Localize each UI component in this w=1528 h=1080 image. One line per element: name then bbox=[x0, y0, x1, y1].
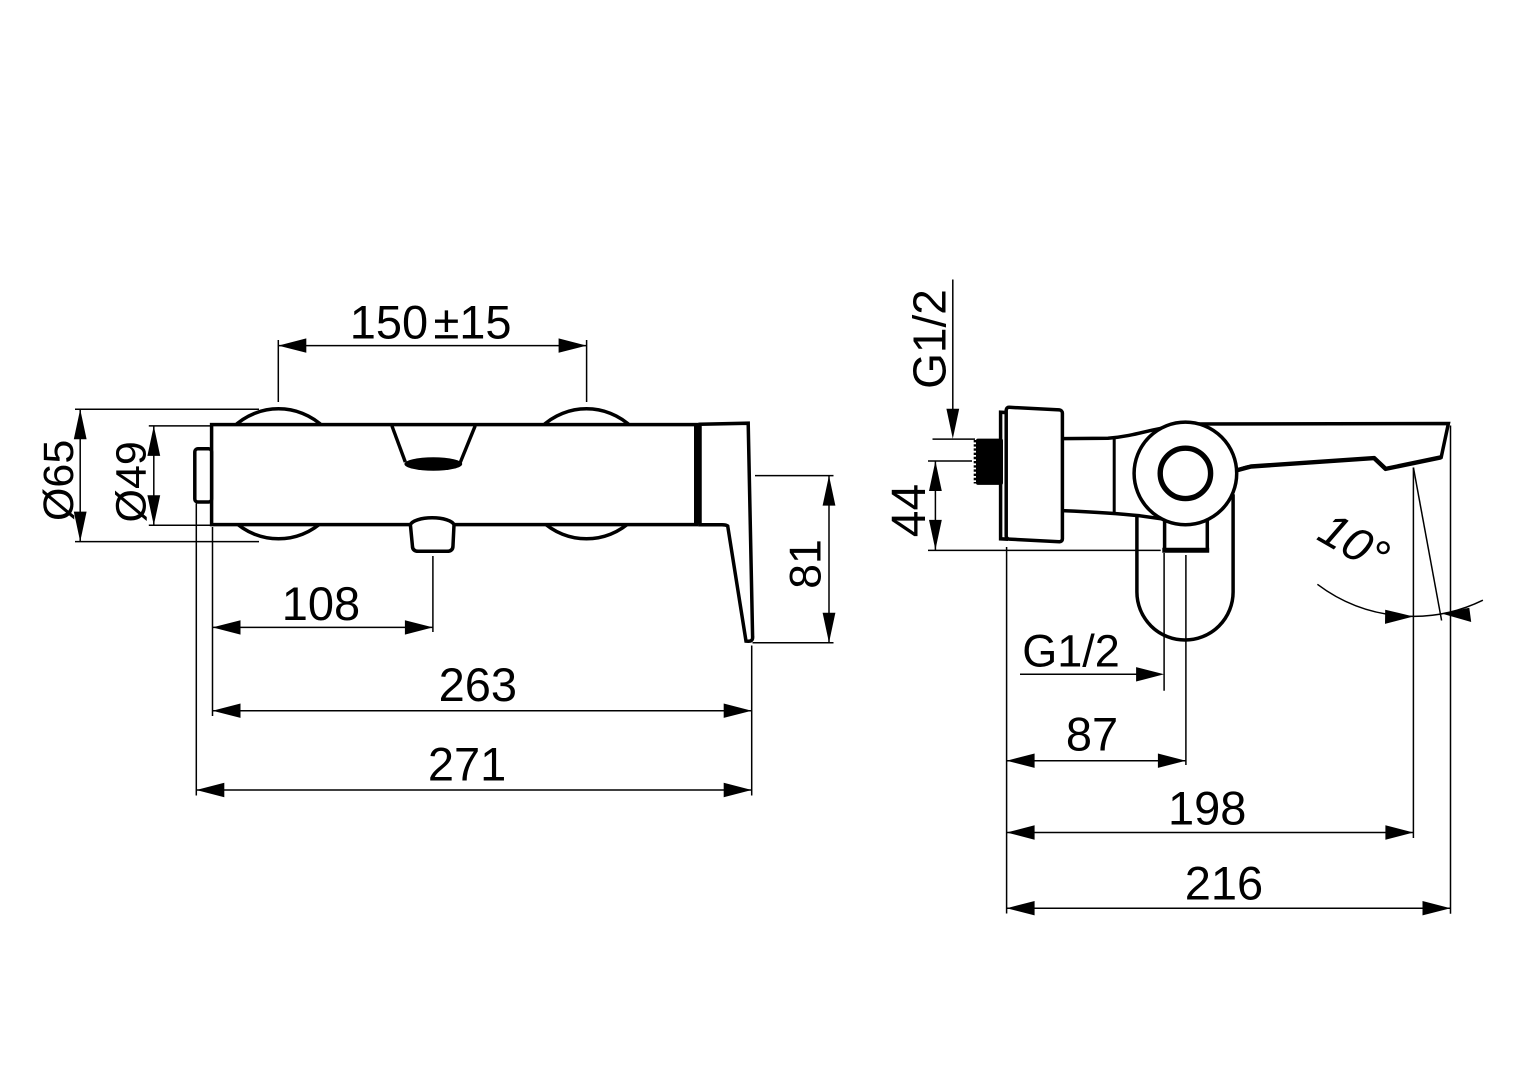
angle 10°: arc bbox=[1317, 584, 1483, 616]
dimension 87: right arrowhead bbox=[1158, 754, 1186, 768]
side view: valve cartridge inner circle bbox=[1160, 448, 1210, 498]
dimension Ø49: top arrowhead bbox=[147, 426, 160, 456]
dimension 150 ±15: dimension line bbox=[278, 345, 586, 347]
front view: diverter recess left edge bbox=[392, 426, 405, 462]
front view: diverter recess bowl (filled ellipse) bbox=[404, 457, 462, 471]
dimension 263: left extension line bbox=[212, 527, 214, 716]
side view: wall arm bbox=[1062, 427, 1170, 521]
front view: left wall-mount escutcheon circle bbox=[214, 409, 344, 539]
svg-text:44: 44 bbox=[883, 484, 936, 537]
dimension 198: right arrowhead bbox=[1385, 825, 1413, 839]
svg-text:G1/2: G1/2 bbox=[1022, 626, 1120, 677]
side view: escutcheon cap bbox=[1006, 407, 1062, 542]
side view: outlet port bottom thick edge bbox=[1162, 548, 1209, 553]
dimension 81: bottom extension line bbox=[753, 642, 834, 644]
dimension 216: dimension line bbox=[1007, 907, 1451, 909]
dimension 263: left arrowhead bbox=[213, 704, 241, 718]
dimension Ø49: dimension line bbox=[153, 426, 155, 525]
svg-text:G1/2: G1/2 bbox=[904, 289, 956, 389]
outlet port left-edge extension line bbox=[1163, 553, 1165, 691]
dimension 271: left arrowhead bbox=[196, 783, 224, 797]
svg-text:±15: ±15 bbox=[433, 296, 511, 349]
side view: valve body outer circle bbox=[1134, 422, 1237, 525]
svg-text:87: 87 bbox=[1066, 708, 1118, 761]
dimension Ø65: dimension line bbox=[79, 409, 81, 541]
svg-text:198: 198 bbox=[1168, 782, 1246, 835]
dimension 81: top extension line bbox=[755, 475, 834, 477]
front view: left end cap bbox=[195, 449, 212, 502]
dimension 198: left arrowhead bbox=[1007, 825, 1035, 839]
side view: escutcheon flange plate bbox=[1001, 412, 1007, 539]
side view: lever handle bbox=[1183, 424, 1448, 491]
side view: nipple thread serration bbox=[974, 440, 977, 484]
front view: bottom outlet nub bbox=[410, 518, 454, 552]
side view: handle bottom edge thick overdraw bbox=[1236, 457, 1441, 470]
dimension 81: bottom arrowhead bbox=[823, 613, 836, 643]
dimension 150 ±15: left arrowhead bbox=[278, 338, 306, 352]
dimension 44: bottom extension line bbox=[928, 549, 1161, 551]
svg-text:108: 108 bbox=[282, 577, 360, 630]
side view: spout U-outlet bbox=[1137, 496, 1233, 640]
svg-text:Ø65: Ø65 bbox=[35, 440, 83, 521]
dimension Ø65: bottom extension line bbox=[75, 541, 259, 543]
side view: arm joint line bbox=[1113, 438, 1116, 512]
dimension 108: right arrowhead bbox=[405, 620, 433, 634]
side view: threaded wall nipple G1/2 bbox=[976, 439, 1003, 485]
dimension Ø65: top extension line bbox=[75, 408, 259, 410]
dimension 263/271: shared right extension line bbox=[751, 646, 753, 796]
wall plane extension line bbox=[1006, 547, 1008, 914]
dimension Ø65: bottom arrowhead bbox=[74, 512, 87, 542]
dimension 150 ±15: right extension line bbox=[586, 340, 588, 402]
angle 10°: left arrowhead bbox=[1385, 610, 1413, 624]
dimension 44: dimension line bbox=[934, 461, 936, 551]
dimension 87: left arrowhead bbox=[1007, 754, 1035, 768]
dimension 198: right extension line bbox=[1412, 468, 1414, 839]
svg-text:271: 271 bbox=[428, 738, 506, 791]
dimension 271: left extension line bbox=[195, 504, 197, 796]
svg-text:Ø49: Ø49 bbox=[108, 441, 156, 522]
label G1/2 (wall connection): nipple top tick line bbox=[933, 438, 976, 440]
dimension 81: top arrowhead bbox=[823, 476, 836, 506]
svg-text:150: 150 bbox=[350, 296, 428, 349]
dimension 108: right extension line bbox=[432, 556, 434, 632]
dimension 263: right arrowhead bbox=[724, 704, 752, 718]
svg-text:263: 263 bbox=[439, 658, 517, 711]
svg-text:81: 81 bbox=[782, 539, 831, 589]
dimension 81: dimension line bbox=[828, 476, 830, 643]
dimension 271: dimension line bbox=[196, 789, 751, 791]
angle 10°: right arrowhead bbox=[1442, 608, 1472, 622]
dimension Ø65: top arrowhead bbox=[74, 409, 87, 439]
dimension 108: left arrowhead bbox=[213, 620, 241, 634]
dimension 198: dimension line bbox=[1007, 832, 1414, 834]
dimension 44: bottom arrowhead bbox=[929, 520, 942, 550]
dimension Ø49: bottom extension line bbox=[149, 524, 211, 526]
dimension 87: dimension line bbox=[1007, 760, 1186, 762]
dimension Ø49: top extension line bbox=[149, 425, 211, 427]
dimension 150 ±15: left extension line bbox=[277, 340, 279, 402]
side view: outlet port rectangle bbox=[1165, 514, 1208, 550]
dimension 263: dimension line bbox=[213, 710, 752, 712]
front view: diverter recess right edge bbox=[460, 426, 475, 463]
dimension Ø49: bottom arrowhead bbox=[147, 495, 160, 525]
front view: right wall-mount escutcheon circle bbox=[522, 409, 652, 539]
dimension 44: top arrowhead bbox=[929, 461, 942, 491]
dimension 216: left arrowhead bbox=[1007, 901, 1035, 915]
dimension 44: top extension line bbox=[928, 460, 972, 462]
front view: lever handle bbox=[700, 423, 753, 641]
svg-text:216: 216 bbox=[1185, 857, 1263, 910]
front view: mixer body bar bbox=[212, 425, 697, 525]
dimension 216: right extension line bbox=[1450, 426, 1452, 914]
dimension 108: dimension line bbox=[213, 626, 433, 628]
dimension 150 ±15: right arrowhead bbox=[559, 338, 587, 352]
dimension 216: right arrowhead bbox=[1423, 901, 1451, 915]
outlet port centre extension line bbox=[1185, 555, 1187, 765]
dimension 271: right arrowhead bbox=[724, 783, 752, 797]
label G1/2 (wall connection): leader line bbox=[952, 280, 954, 413]
front view: body/handle joint thick line bbox=[694, 423, 700, 524]
angle 10°: slanted reference line bbox=[1413, 468, 1441, 621]
label G1/2 (spout outlet): leader arrowhead bbox=[1136, 667, 1164, 681]
label G1/2 (spout outlet): leader line bbox=[1020, 673, 1140, 675]
label G1/2 (wall connection): leader arrowhead bbox=[946, 409, 959, 439]
